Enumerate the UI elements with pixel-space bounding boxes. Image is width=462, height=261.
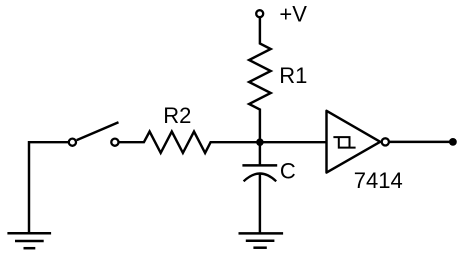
svg-text:C: C bbox=[280, 159, 296, 184]
svg-text:R1: R1 bbox=[279, 63, 307, 88]
svg-text:+V: +V bbox=[279, 2, 307, 27]
svg-text:R2: R2 bbox=[163, 103, 191, 128]
svg-text:7414: 7414 bbox=[354, 168, 403, 193]
